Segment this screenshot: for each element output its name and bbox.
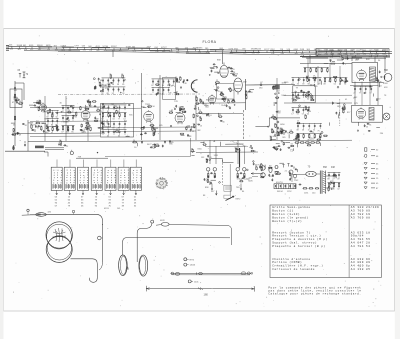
svg-text:485: 485 — [295, 53, 298, 55]
svg-text:957: 957 — [256, 53, 259, 55]
cluster below rect1 — [353, 85, 382, 101]
pot P2 tone — [236, 168, 254, 183]
svg-text:36134: 36134 — [277, 191, 283, 193]
svg-text:318: 318 — [24, 49, 27, 51]
dashed v x340 — [339, 99, 341, 126]
svg-text:Plaquette à bornier (B p): Plaquette à bornier (B p) — [272, 244, 325, 248]
label V4 — [174, 101, 178, 103]
cadre ellipse A — [119, 255, 129, 276]
coil L1 — [10, 89, 24, 108]
cluster right of box — [376, 71, 389, 88]
svg-text:08: 08 — [323, 83, 325, 85]
cluster outputs right — [268, 124, 300, 151]
svg-text:075: 075 — [133, 50, 136, 52]
capacitor C mid — [24, 141, 26, 146]
svg-text:16: 16 — [304, 114, 306, 116]
wire v x230 — [229, 164, 231, 195]
SS mark — [290, 149, 293, 153]
svg-text:34: 34 — [307, 98, 309, 100]
arrows down — [215, 191, 217, 196]
staircase wire upper — [255, 118, 300, 126]
link wire y273 — [171, 273, 252, 275]
svg-text:96: 96 — [380, 81, 382, 83]
svg-text:82: 82 — [282, 133, 284, 135]
tube V1 triode — [40, 103, 47, 112]
parts list table — [270, 205, 381, 278]
wire drop to output — [309, 55, 311, 63]
marks NN — [78, 157, 82, 159]
svg-text:17: 17 — [296, 110, 298, 112]
wire h y136 left — [30, 135, 100, 137]
svg-text:Carrousel de lavande: Carrousel de lavande — [272, 267, 315, 271]
svg-text:43: 43 — [68, 120, 70, 122]
svg-text:Support (bal. strevo): Support (bal. strevo) — [272, 241, 317, 245]
svg-text:88: 88 — [327, 178, 329, 180]
svg-text:25: 25 — [261, 175, 263, 177]
svg-text:24: 24 — [199, 117, 201, 119]
svg-text:FLORA: FLORA — [203, 40, 217, 44]
svg-text:59: 59 — [46, 116, 48, 118]
title FLORA — [203, 40, 217, 44]
cluster IF mid big — [101, 103, 133, 137]
svg-text:90: 90 — [276, 131, 278, 133]
label V9 — [354, 103, 358, 105]
label under arrow — [236, 199, 242, 201]
power transformer — [320, 171, 325, 194]
labels right sec misc — [345, 87, 388, 101]
svg-text:71: 71 — [109, 74, 111, 76]
cluster V2 cathode parts — [80, 121, 92, 134]
svg-text:93: 93 — [153, 148, 155, 150]
svg-text:038: 038 — [281, 53, 284, 55]
svg-text:02685: 02685 — [197, 48, 203, 50]
loop winding scribble — [53, 228, 67, 242]
svg-text:33: 33 — [16, 97, 18, 99]
svg-text:61: 61 — [313, 129, 315, 131]
wire v x362 mid — [361, 82, 363, 105]
wire v x1905 — [190, 138, 192, 157]
socket on wire — [72, 210, 75, 214]
svg-text:82: 82 — [75, 117, 77, 119]
cluster br tile3 — [271, 128, 290, 142]
top supply bus wires — [6, 45, 392, 59]
cluster osc coil — [29, 100, 48, 112]
IF transformer T1 cluster — [100, 74, 127, 95]
wire ps — [292, 174, 334, 188]
svg-text:81: 81 — [344, 83, 346, 85]
wire v x355 mid — [354, 82, 356, 105]
svg-text:92: 92 — [112, 93, 114, 95]
svg-text:885: 885 — [301, 53, 304, 55]
dashed box 2 — [224, 195, 231, 198]
svg-text:Bouton (1+13): Bouton (1+13) — [272, 212, 300, 216]
transformer hatch bar — [370, 67, 376, 82]
svg-text:95: 95 — [34, 131, 36, 133]
cluster top right row — [300, 56, 352, 66]
dial wheel — [155, 177, 168, 189]
svg-text:37: 37 — [51, 116, 53, 118]
cluster band coils — [61, 105, 77, 133]
svg-text:59: 59 — [40, 126, 42, 128]
left scan edge — [0, 0, 4, 339]
svg-text:301: 301 — [18, 49, 21, 51]
wave switch bank S1 — [51, 167, 141, 190]
svg-text:38: 38 — [117, 84, 119, 86]
svg-text:66: 66 — [19, 101, 21, 103]
rect hatch bar — [369, 108, 374, 121]
cluster tone net — [201, 155, 219, 163]
svg-text:32: 32 — [260, 167, 262, 169]
svg-text:27: 27 — [30, 124, 32, 126]
svg-text:64: 64 — [333, 173, 335, 175]
resistor R1 — [14, 94, 15, 99]
svg-text:72: 72 — [176, 78, 178, 80]
svg-text:94: 94 — [245, 95, 247, 97]
cluster above V2 — [93, 78, 103, 90]
link middle fitting — [197, 272, 203, 274]
wire h y146 mid — [205, 145, 246, 147]
svg-text:81: 81 — [376, 77, 378, 79]
svg-text:76: 76 — [51, 113, 53, 115]
wire v x318 mid — [317, 66, 319, 85]
wire h y95 right — [284, 94, 352, 96]
svg-text:68: 68 — [308, 83, 310, 85]
loop wire corner right — [96, 214, 103, 225]
legend list — [364, 148, 379, 190]
cluster ps mid — [332, 102, 351, 119]
boxed AVC section — [293, 86, 315, 103]
svg-text:268: 268 — [169, 51, 172, 53]
svg-text:86: 86 — [51, 124, 53, 126]
svg-text:06: 06 — [291, 144, 293, 146]
svg-text:993: 993 — [55, 49, 58, 51]
svg-text:67127: 67127 — [161, 47, 167, 49]
wire h y152 mid — [196, 151, 258, 153]
svg-text:Plaquette à douilles (M p): Plaquette à douilles (M p) — [272, 237, 327, 241]
cadre ellipse B — [139, 255, 148, 276]
svg-text:84: 84 — [59, 140, 61, 142]
svg-text:21: 21 — [179, 107, 181, 109]
wire v x340 mid — [339, 66, 341, 85]
switch position labels — [55, 190, 137, 207]
wire drop x385 — [384, 57, 386, 73]
wire v x66 — [65, 96, 67, 141]
twin wire pair — [45, 148, 64, 150]
switch circle label — [188, 280, 199, 284]
label V3 — [141, 107, 145, 109]
pickup jacks J1 — [251, 163, 284, 181]
svg-text:91: 91 — [67, 127, 69, 129]
svg-text:50: 50 — [56, 116, 58, 118]
tube V4 detector — [175, 112, 185, 124]
labels above rect1 — [356, 59, 381, 62]
output transformer box — [352, 63, 378, 83]
resistor row top — [295, 139, 321, 144]
svg-text:58: 58 — [228, 107, 230, 109]
hook wire — [44, 152, 48, 157]
svg-text:23: 23 — [196, 101, 198, 103]
dark comp x277 — [275, 84, 280, 89]
cluster small y143 — [58, 140, 68, 148]
svg-text:17: 17 — [98, 82, 100, 84]
svg-text:34: 34 — [112, 118, 114, 120]
svg-text:11: 11 — [108, 83, 110, 85]
svg-text:95: 95 — [159, 94, 161, 96]
capacitor C1 — [14, 87, 16, 90]
svg-text:83: 83 — [195, 96, 197, 98]
svg-text:44: 44 — [307, 113, 309, 115]
svg-text:53: 53 — [122, 93, 124, 95]
svg-text:Perline (COMB): Perline (COMB) — [272, 260, 302, 264]
svg-text:52: 52 — [66, 146, 68, 148]
svg-text:40: 40 — [123, 127, 125, 129]
cadre oval component — [156, 220, 175, 226]
svg-text:Crémaillère (H.F. engr.): Crémaillère (H.F. engr.) — [272, 264, 323, 268]
loop exit wire — [71, 259, 98, 283]
junction comp y85 — [259, 82, 263, 90]
cluster V2 grid parts — [80, 100, 97, 111]
tube V2 heptode — [81, 109, 90, 120]
wire h y113 — [196, 113, 243, 115]
right scan edge — [395, 0, 400, 339]
svg-text:89: 89 — [107, 93, 109, 95]
cadre wire right — [175, 225, 232, 245]
fuse resistor row — [296, 180, 319, 195]
wire drop x375 — [374, 57, 376, 62]
wire h y108 mid — [100, 107, 141, 109]
cluster under y113 — [199, 113, 224, 124]
svg-text:75: 75 — [199, 110, 201, 112]
svg-text:71: 71 — [179, 76, 181, 78]
svg-text:12: 12 — [297, 98, 299, 100]
svg-text:69: 69 — [13, 132, 15, 134]
svg-text:07: 07 — [220, 92, 222, 94]
antenna terminals — [18, 70, 29, 78]
wire bank feeds — [57, 160, 136, 168]
cluster left col right sec — [291, 90, 311, 119]
wire v x141 — [140, 73, 142, 140]
tube V7 AF — [208, 95, 216, 105]
cluster V5 below — [214, 80, 235, 100]
pot P2 drop — [240, 184, 242, 191]
svg-text:98: 98 — [25, 125, 27, 127]
svg-text:87: 87 — [151, 85, 153, 87]
svg-text:70: 70 — [68, 110, 70, 112]
cluster under rail mid — [132, 140, 159, 150]
svg-text:66: 66 — [227, 99, 229, 101]
wire hbus y141 — [28, 141, 292, 142]
wire v x2225 — [222, 160, 224, 185]
svg-text:90: 90 — [101, 84, 103, 86]
svg-text:89: 89 — [296, 134, 298, 136]
svg-text:96245: 96245 — [255, 49, 261, 51]
svg-text:68: 68 — [290, 130, 292, 132]
wire riser x28 — [27, 120, 29, 151]
wire v x370 mid — [369, 82, 371, 105]
svg-text:94: 94 — [133, 140, 135, 142]
svg-text:Catalogue pour pièces de recha: Catalogue pour pièces de rechange standa… — [268, 292, 361, 296]
svg-text:87: 87 — [37, 127, 39, 129]
svg-text:53: 53 — [209, 115, 211, 117]
svg-text:36: 36 — [153, 129, 155, 131]
svg-text:018: 018 — [10, 49, 13, 51]
cluster x193 y152 — [191, 148, 203, 155]
svg-text:013: 013 — [252, 53, 255, 55]
svg-text:A4 784 54: A4 784 54 — [351, 245, 371, 248]
svg-text:87: 87 — [274, 123, 276, 125]
svg-text:55: 55 — [148, 104, 150, 106]
svg-text:19: 19 — [169, 110, 171, 112]
label V6 — [243, 82, 247, 84]
cluster AF right — [221, 98, 235, 110]
svg-text:Grille Semi-galbée: Grille Semi-galbée — [272, 205, 310, 209]
dash-dot diagonal — [229, 141, 252, 149]
wire h y103 right — [284, 102, 352, 104]
svg-text:25: 25 — [312, 132, 314, 134]
svg-text:48: 48 — [171, 86, 173, 88]
wire bottom left rail — [5, 150, 45, 152]
svg-text:180: 180 — [204, 292, 209, 296]
svg-text:58: 58 — [275, 146, 277, 148]
wire v x378 mid — [377, 82, 379, 105]
svg-text:95: 95 — [219, 114, 221, 116]
wire drop to V5 — [222, 52, 224, 64]
cluster ps right — [327, 172, 340, 191]
svg-text:36: 36 — [269, 136, 271, 138]
svg-text:55597: 55597 — [111, 46, 117, 48]
svg-text:76: 76 — [316, 86, 318, 88]
svg-text:53: 53 — [366, 127, 368, 129]
svg-text:Ressort Tension ( cir.): Ressort Tension ( cir.) — [272, 234, 321, 238]
dot x97 — [97, 152, 98, 153]
cluster V4 lower — [154, 125, 195, 148]
svg-text:13: 13 — [200, 125, 202, 127]
wire v x308 mid — [307, 58, 309, 80]
cluster on x196 — [193, 114, 202, 132]
label V8 — [355, 60, 359, 62]
svg-text:77: 77 — [359, 92, 361, 94]
wire v x277 — [276, 78, 278, 140]
svg-text:99: 99 — [318, 83, 320, 85]
wire h y103 AF — [196, 102, 246, 104]
svg-text:85: 85 — [269, 166, 271, 168]
svg-text:01: 01 — [334, 83, 336, 85]
svg-text:94: 94 — [297, 113, 299, 115]
svg-text:69: 69 — [278, 113, 280, 115]
wire h y127 mid — [100, 126, 196, 129]
svg-text:01: 01 — [114, 105, 116, 107]
svg-text:8372: 8372 — [236, 199, 242, 201]
svg-text:50: 50 — [332, 188, 334, 190]
svg-text:77: 77 — [118, 118, 120, 120]
wire drop to rect box — [351, 56, 353, 61]
svg-text:12: 12 — [192, 131, 194, 133]
frame antenna loop B — [46, 236, 72, 263]
wire v x245 — [245, 79, 247, 110]
dash-dot tuning gang line — [58, 93, 200, 96]
labels under P2 — [236, 187, 245, 193]
svg-text:75: 75 — [45, 125, 47, 127]
svg-text:33: 33 — [239, 150, 241, 152]
wire hbus y133 — [15, 132, 105, 135]
cluster AF parts — [194, 96, 212, 113]
svg-text:684: 684 — [162, 51, 165, 53]
svg-text:66: 66 — [223, 122, 225, 124]
svg-text:17: 17 — [291, 113, 293, 115]
svg-text:95: 95 — [233, 69, 235, 71]
bold wire x239 — [239, 148, 241, 168]
svg-text:616751: 616751 — [276, 182, 284, 184]
svg-text:40: 40 — [271, 129, 273, 131]
chain right column — [271, 82, 289, 136]
cluster pots top net — [200, 141, 254, 153]
svg-text:22: 22 — [216, 80, 218, 82]
svg-text:25: 25 — [297, 121, 299, 123]
dimension line — [146, 286, 254, 292]
svg-text:72: 72 — [342, 109, 344, 111]
svg-text:61: 61 — [277, 171, 279, 173]
pen tick mark — [226, 196, 235, 201]
cluster V4 parts — [169, 105, 186, 114]
wire h y112 left — [55, 111, 100, 113]
rectifier group box — [352, 105, 383, 122]
svg-text:33: 33 — [255, 165, 257, 167]
wire h y121 left — [30, 120, 105, 123]
IF can outline 2 — [102, 112, 110, 127]
dashed box — [224, 185, 231, 191]
staircase wire lower — [211, 159, 234, 163]
cluster V5 left parts — [209, 63, 221, 75]
svg-text:30: 30 — [289, 172, 291, 174]
tube V5 output big — [220, 63, 228, 78]
wire v x160 — [159, 75, 161, 140]
resistor R2 — [14, 116, 15, 121]
wire h y131 mid — [100, 130, 196, 133]
svg-text:48: 48 — [185, 83, 187, 85]
svg-text:231: 231 — [83, 50, 86, 52]
cluster jack labels — [247, 161, 257, 171]
svg-text:14026: 14026 — [190, 265, 196, 267]
svg-text:45: 45 — [293, 98, 295, 100]
labels under P1 — [203, 187, 215, 197]
cluster ps low — [295, 121, 329, 148]
wire h y144 — [225, 143, 243, 145]
svg-text:94: 94 — [206, 180, 208, 182]
pilot lamp — [383, 113, 390, 120]
svg-text:91: 91 — [291, 83, 293, 85]
cadre wire lower — [123, 238, 230, 255]
tube V6 — [234, 78, 243, 95]
svg-text:28: 28 — [304, 106, 306, 108]
cluster V1 parts — [28, 119, 49, 135]
frame antenna loop A — [46, 222, 72, 249]
svg-text:86: 86 — [191, 148, 193, 150]
svg-text:09: 09 — [313, 76, 315, 78]
IF transformer T2 cluster — [151, 77, 179, 99]
svg-text:31: 31 — [97, 108, 99, 110]
svg-text:154: 154 — [271, 53, 274, 55]
svg-text:Bouton (le grand): Bouton (le grand) — [272, 216, 308, 220]
svg-text:632: 632 — [176, 51, 179, 53]
svg-text:96: 96 — [240, 179, 242, 181]
note paragraph — [268, 285, 361, 295]
label MEDIUM blob — [35, 146, 44, 149]
scan noise speckle — [7, 35, 390, 307]
label 48 — [308, 166, 311, 169]
svg-text:51: 51 — [287, 132, 289, 134]
svg-text:38: 38 — [89, 102, 91, 104]
svg-text:38: 38 — [112, 84, 114, 86]
